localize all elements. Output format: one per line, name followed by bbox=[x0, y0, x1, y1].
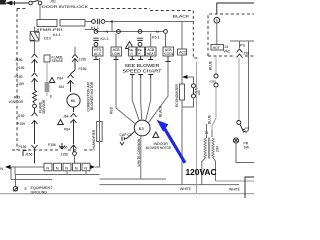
wire xfmr out top bbox=[85, 21, 92, 23]
speed plugs second row bbox=[130, 75, 153, 79]
svg-text:P159: P159 bbox=[17, 122, 25, 126]
switch S door interlock bbox=[29, 1, 33, 5]
node circle n4 bbox=[164, 30, 168, 34]
svg-text:ME: ME bbox=[138, 48, 142, 52]
PS feed line bbox=[230, 41, 254, 133]
warning triangle mid bbox=[126, 42, 134, 49]
terminal box HTG ACC bbox=[93, 47, 104, 56]
motor section bottom lines bbox=[100, 178, 167, 180]
svg-text:B3: B3 bbox=[139, 126, 145, 131]
warning triangle motor bbox=[153, 132, 159, 137]
svg-text:HEAT: HEAT bbox=[147, 52, 156, 56]
terminal box ACB LOW bbox=[111, 47, 122, 56]
arrow right into board bbox=[90, 165, 95, 169]
svg-text:INDOOR: INDOOR bbox=[154, 142, 169, 146]
svg-text:P156: P156 bbox=[79, 67, 87, 71]
svg-text:IGNITOR: IGNITOR bbox=[9, 100, 24, 104]
right box feed corner bbox=[217, 3, 254, 14]
page rule gray bottom bbox=[0, 193, 254, 195]
wire junction drop bbox=[111, 22, 113, 32]
contact K2-1 bbox=[93, 38, 99, 40]
right dashed box (24V hot section) bbox=[208, 14, 254, 56]
pressure switch coil bbox=[233, 138, 238, 143]
warning triangle small bbox=[49, 78, 55, 83]
svg-text:GROUND: GROUND bbox=[31, 190, 48, 194]
combustion air blower wire upper connector bbox=[74, 47, 76, 54]
wire black main top bbox=[105, 21, 194, 23]
svg-text:XFMR-PRI: XFMR-PRI bbox=[36, 27, 62, 32]
svg-text:BLUE: BLUE bbox=[208, 114, 212, 124]
connector J58 bbox=[237, 49, 243, 58]
svg-text:VAC: VAC bbox=[224, 49, 231, 53]
indoor blower motor B3 bbox=[134, 120, 150, 136]
svg-text:N: N bbox=[46, 167, 49, 171]
wire switch to xfmr bbox=[39, 5, 41, 20]
wire motor common bbox=[140, 136, 142, 179]
svg-text:HI: HI bbox=[138, 52, 141, 56]
neutral row line bbox=[96, 31, 164, 33]
svg-text:R33: R33 bbox=[14, 95, 20, 99]
board dashed outline left bbox=[16, 9, 18, 151]
node circle B bbox=[214, 17, 220, 23]
pressure switch wire bbox=[238, 58, 240, 120]
svg-text:LOW: LOW bbox=[112, 52, 121, 56]
svg-text:BLACK: BLACK bbox=[159, 105, 163, 117]
terminal box ACC bbox=[178, 49, 187, 55]
neutral wire up into board bbox=[95, 58, 100, 167]
svg-text:K2-1: K2-1 bbox=[101, 37, 109, 41]
arrow marker left bbox=[5, 1, 12, 5]
wire cbo bbox=[215, 56, 217, 74]
corner content cutoff blob bbox=[0, 0, 7, 5]
svg-text:N: N bbox=[65, 167, 68, 171]
bottom right corner box bbox=[245, 177, 254, 198]
svg-text:PS: PS bbox=[240, 44, 245, 48]
svg-text:ACC: ACC bbox=[179, 50, 187, 54]
wire xfmr out lower bbox=[85, 30, 96, 32]
triac D10 bbox=[34, 27, 36, 32]
node circle n1 bbox=[94, 30, 98, 34]
svg-text:J156: J156 bbox=[79, 57, 86, 61]
svg-text:N: N bbox=[106, 30, 109, 34]
junction dot bbox=[111, 20, 113, 22]
xfmr-pri box 2 bbox=[60, 20, 85, 27]
svg-text:D10: D10 bbox=[44, 37, 51, 41]
switch contact open circle bbox=[237, 121, 241, 125]
svg-text:SENSE: SENSE bbox=[52, 59, 64, 63]
svg-text:BLUE: BLUE bbox=[209, 60, 213, 70]
svg-text:SENSOR: SENSOR bbox=[42, 99, 46, 114]
flame sense box bbox=[44, 55, 50, 62]
svg-text:SW: SW bbox=[244, 146, 250, 150]
terminal box ACB COOL bbox=[163, 47, 174, 56]
svg-text:BLOWER MOTOR: BLOWER MOTOR bbox=[90, 81, 94, 110]
svg-text:N: N bbox=[156, 30, 159, 34]
svg-text:J159: J159 bbox=[17, 114, 24, 118]
svg-text:WHITE: WHITE bbox=[180, 187, 192, 191]
svg-text:B6: B6 bbox=[71, 99, 75, 103]
N terminal boxes bbox=[44, 163, 52, 171]
svg-text:EQUIPMENT: EQUIPMENT bbox=[31, 186, 54, 190]
board dashed outline bottom bbox=[12, 149, 95, 151]
svg-text:WHITE-COMMON: WHITE-COMMON bbox=[137, 138, 141, 166]
terminal box MED LO bbox=[129, 47, 137, 56]
blue callout arrow bbox=[157, 120, 169, 132]
svg-text:J156: J156 bbox=[61, 152, 68, 156]
terminal box MED HI bbox=[137, 47, 145, 56]
svg-text:J84: J84 bbox=[63, 115, 69, 119]
transformer leads bbox=[202, 158, 206, 185]
svg-text:P84: P84 bbox=[64, 127, 70, 131]
line L1 incoming bbox=[0, 2, 28, 4]
xfmr-pri box 1 bbox=[37, 20, 57, 27]
economizer resistor bbox=[180, 84, 185, 100]
gray column separator bbox=[196, 62, 198, 193]
connector CBO bbox=[214, 74, 218, 78]
wire from pr sw down bbox=[236, 143, 254, 162]
motor fan wires bbox=[116, 60, 136, 125]
relay coil contacts K49 bbox=[192, 84, 196, 88]
svg-text:J159: J159 bbox=[17, 82, 24, 86]
svg-text:J156: J156 bbox=[15, 58, 22, 62]
svg-text:J156: J156 bbox=[25, 153, 32, 157]
transformer T1 bbox=[207, 124, 213, 138]
economizer bottom join bbox=[182, 98, 194, 185]
svg-text:K5-1: K5-1 bbox=[152, 36, 160, 40]
lower left bus bbox=[11, 167, 100, 180]
svg-text:P84: P84 bbox=[57, 76, 63, 80]
svg-text:B: B bbox=[216, 19, 218, 23]
svg-text:ACC: ACC bbox=[94, 52, 102, 56]
combustion air blower motor B6 bbox=[67, 94, 80, 107]
equipment ground symbol bbox=[15, 175, 17, 187]
svg-text:DOOR INTERLOCK: DOOR INTERLOCK bbox=[42, 4, 88, 9]
svg-text:ME: ME bbox=[129, 48, 133, 52]
svg-text:JS1: JS1 bbox=[50, 0, 56, 4]
flame sensor electrode bbox=[46, 62, 48, 82]
board dashed outline right bbox=[193, 11, 198, 59]
svg-text:P156: P156 bbox=[48, 143, 56, 147]
svg-text:CO: CO bbox=[245, 126, 249, 130]
svg-text:LO: LO bbox=[130, 52, 133, 56]
svg-text:N: N bbox=[75, 167, 78, 171]
HOT terminal bbox=[211, 45, 224, 51]
node circle n3 bbox=[138, 30, 142, 34]
svg-text:120VAC: 120VAC bbox=[186, 168, 217, 177]
connector P156 J156 bottom bbox=[71, 145, 77, 152]
connector chevron mid bbox=[59, 143, 65, 149]
svg-text:N: N bbox=[0, 166, 3, 171]
svg-text:J58: J58 bbox=[244, 51, 250, 55]
svg-text:N: N bbox=[56, 167, 59, 171]
economizer branch bbox=[181, 55, 183, 84]
wire to hot bbox=[216, 23, 218, 45]
svg-text:RED: RED bbox=[110, 106, 114, 114]
svg-text:P156: P156 bbox=[19, 145, 27, 149]
svg-text:ECONOMIZER: ECONOMIZER bbox=[175, 83, 179, 107]
svg-text:HOT: HOT bbox=[213, 46, 220, 50]
svg-text:WHITE: WHITE bbox=[229, 188, 241, 192]
contact K5-1 bbox=[137, 38, 143, 40]
board dashed outline top bbox=[17, 9, 193, 11]
svg-text:K4-1: K4-1 bbox=[53, 33, 61, 37]
svg-text:K49: K49 bbox=[197, 90, 201, 95]
wire drops to speed boxes bbox=[96, 22, 182, 50]
svg-text:P159: P159 bbox=[15, 75, 23, 79]
terminal box ACB HEAT bbox=[146, 47, 157, 56]
svg-text:P156: P156 bbox=[17, 66, 25, 70]
warning triangle lower bbox=[58, 120, 64, 125]
svg-text:J84: J84 bbox=[59, 85, 65, 89]
junction arrow economizer bbox=[182, 75, 188, 79]
svg-text:HUMIDIFIER: HUMIDIFIER bbox=[92, 129, 96, 149]
svg-text:BLACK: BLACK bbox=[173, 13, 190, 18]
svg-text:SPEED CHART: SPEED CHART bbox=[123, 68, 163, 73]
connector J84 P84 lower bbox=[71, 107, 77, 144]
svg-text:BLOWER MOTOR: BLOWER MOTOR bbox=[146, 146, 171, 150]
svg-text:24: 24 bbox=[225, 45, 229, 49]
contact K1-1 bbox=[92, 20, 96, 24]
svg-text:COOL: COOL bbox=[164, 52, 174, 56]
svg-text:24V: 24V bbox=[216, 145, 220, 152]
svg-text:N: N bbox=[84, 167, 87, 171]
node circle n2 bbox=[117, 30, 121, 34]
plug stubs below boxes bbox=[94, 56, 171, 62]
connector J156 P156 combustion bbox=[72, 55, 78, 71]
